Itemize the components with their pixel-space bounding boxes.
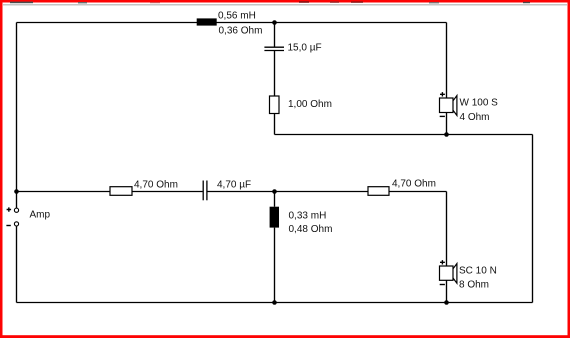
svg-text:0,56 mH: 0,56 mH <box>218 11 256 22</box>
svg-text:4,70 Ohm: 4,70 Ohm <box>392 179 436 190</box>
svg-text:0,33 mH: 0,33 mH <box>289 210 327 221</box>
svg-text:0,36 Ohm: 0,36 Ohm <box>219 25 263 36</box>
svg-text:8 Ohm: 8 Ohm <box>459 280 489 291</box>
svg-text:SC 10 N: SC 10 N <box>459 266 497 277</box>
svg-text:15,0 µF: 15,0 µF <box>288 43 322 54</box>
svg-text:4 Ohm: 4 Ohm <box>460 112 490 123</box>
svg-text:0,48 Ohm: 0,48 Ohm <box>289 224 333 235</box>
svg-text:4,70 Ohm: 4,70 Ohm <box>134 179 178 190</box>
svg-text:Amp: Amp <box>30 210 51 221</box>
svg-text:1,00 Ohm: 1,00 Ohm <box>288 99 332 110</box>
svg-text:4,70 µF: 4,70 µF <box>217 179 251 190</box>
svg-text:W 100 S: W 100 S <box>460 98 499 109</box>
